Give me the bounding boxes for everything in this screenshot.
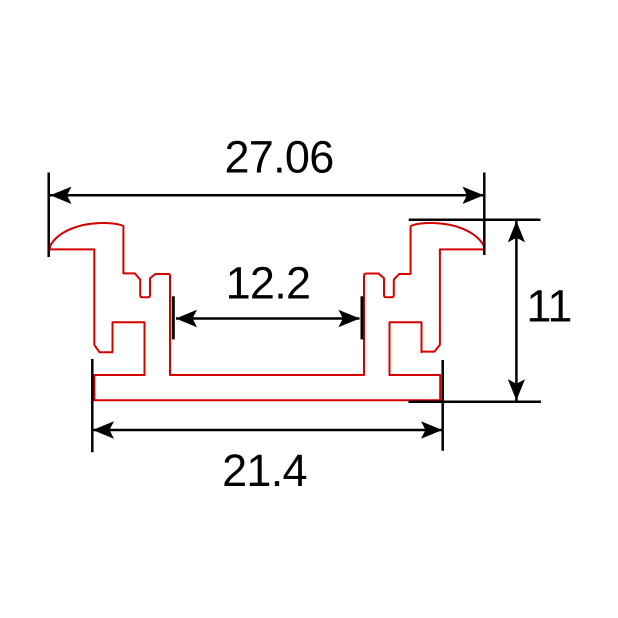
wire dimension line 11 [515, 221, 518, 401]
wire extension line top of 11 [409, 219, 541, 222]
wire tick bar right of 12.2 [361, 296, 364, 339]
profile outline: aluminum LED channel cross-section [50, 223, 484, 400]
svg-text:27.06: 27.06 [224, 132, 333, 183]
arrow right of 12.2 [338, 310, 359, 327]
arrow right of 27.06 [463, 187, 484, 204]
arrow right of 21.4 [421, 421, 442, 438]
arrow left of 27.06 [50, 187, 71, 204]
wire extension line right of 21.4 [441, 360, 444, 451]
arrow left of 21.4 [93, 421, 114, 438]
wire tick bar left of 12.2 [172, 296, 175, 339]
wire extension line left of 21.4 [91, 359, 94, 452]
dimension 11 [409, 220, 542, 402]
svg-text:11: 11 [526, 281, 571, 332]
wire left side mounting slot and step block [113, 322, 145, 375]
arrow top of 11 [508, 221, 525, 242]
dimension 21.4 [92, 359, 442, 452]
wire right side mounting slot and step block [390, 322, 422, 375]
dimension 27.06 [49, 173, 485, 258]
arrow bottom of 11 [508, 379, 525, 400]
arrow left of 12.2 [176, 310, 197, 327]
wire extension line right of 27.06 [483, 173, 486, 256]
wire extension line left of 27.06 [47, 173, 50, 258]
svg-text:21.4: 21.4 [222, 445, 307, 496]
wire dimension line 12.2 [176, 317, 360, 320]
dimension 12.2 [173, 296, 362, 339]
wire extension line bottom of 11 [409, 401, 542, 404]
wire main profile outline (wings, clip grooves, inner channel walls) [50, 223, 484, 375]
wire dimension line 27.06 [50, 194, 484, 197]
wire dimension line 21.4 [93, 429, 442, 432]
svg-text:12.2: 12.2 [226, 258, 311, 309]
wire base plate [94, 375, 440, 400]
